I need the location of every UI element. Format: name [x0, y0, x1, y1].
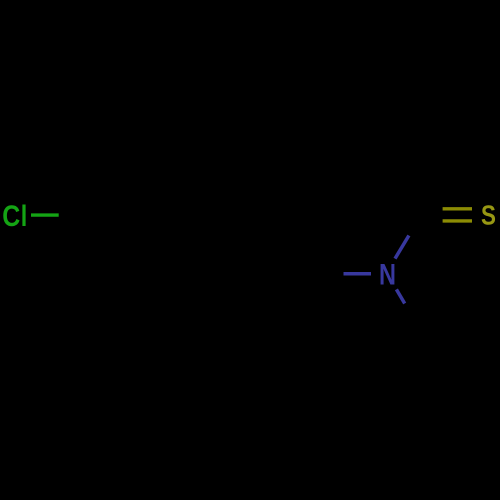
svg-text:C: C [2, 199, 20, 232]
svg-text:S: S [481, 200, 496, 231]
svg-text:l: l [21, 199, 28, 232]
svg-text:N: N [379, 258, 396, 291]
